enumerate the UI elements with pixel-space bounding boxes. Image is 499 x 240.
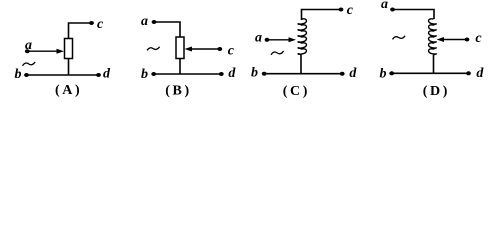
svg-text:b: b xyxy=(15,67,22,82)
svg-text:d: d xyxy=(228,66,236,81)
AC source tilde (A) xyxy=(23,62,36,66)
node a terminal dot (A) xyxy=(25,49,30,53)
wire a right and down to RB top xyxy=(154,22,180,37)
svg-text:d: d xyxy=(349,66,357,81)
svg-text:c: c xyxy=(97,17,104,32)
svg-text:b: b xyxy=(251,66,258,81)
svg-text:d: d xyxy=(103,67,111,82)
wire top of LC up and right to c xyxy=(302,10,341,21)
wiper arrow a to LC xyxy=(267,39,289,41)
wire bottom b to d (C) xyxy=(264,73,342,75)
wire LD bottom stub xyxy=(433,55,435,73)
node c terminal dot (C) xyxy=(339,8,344,12)
node c terminal dot (B) xyxy=(217,47,222,51)
node c terminal dot (D) xyxy=(465,38,470,42)
svg-text:c: c xyxy=(475,31,482,46)
svg-text:b: b xyxy=(380,67,387,82)
svg-text:c: c xyxy=(228,44,235,59)
node a terminal dot (B) xyxy=(152,20,157,24)
wire bottom b to d (D) xyxy=(392,72,469,74)
wiper arrow a to RA xyxy=(27,50,57,52)
AC source tilde (D) xyxy=(393,36,406,40)
svg-text:a: a xyxy=(141,14,148,29)
node b terminal dot (C) xyxy=(262,72,267,76)
svg-text:a: a xyxy=(381,0,388,12)
node b terminal dot (D) xyxy=(389,71,394,75)
node d terminal dot (C) xyxy=(340,72,345,76)
node d terminal dot (A) xyxy=(96,73,101,77)
resistor RA (vertical box) xyxy=(65,39,73,59)
AC source tilde (B) xyxy=(147,47,160,51)
svg-text:(C): (C) xyxy=(283,84,310,99)
wiper arrow c to RB xyxy=(191,48,220,50)
resistor RB (vertical box) xyxy=(176,37,184,59)
wire a right and down to LD top xyxy=(393,10,435,20)
svg-text:(D): (D) xyxy=(423,84,450,99)
wire top of RA up and right to c xyxy=(69,23,92,39)
node d terminal dot (B) xyxy=(219,72,224,76)
wire bottom b to d (B) xyxy=(154,73,222,75)
svg-text:b: b xyxy=(141,67,148,82)
wire bottom b to d (A) xyxy=(27,74,99,76)
wire LC bottom stub xyxy=(300,55,302,74)
svg-text:d: d xyxy=(476,66,484,81)
node c terminal dot (A) xyxy=(89,21,94,25)
wire RB bottom stub xyxy=(179,59,181,75)
node b terminal dot (B) xyxy=(151,72,156,76)
node a terminal dot (C) xyxy=(265,38,270,42)
node a terminal dot (D) xyxy=(390,8,395,12)
node b terminal dot (A) xyxy=(24,73,29,77)
AC source tilde (C) xyxy=(271,51,284,55)
svg-text:(A): (A) xyxy=(55,83,82,98)
svg-text:c: c xyxy=(347,3,354,18)
wiper arrow c to LD xyxy=(444,39,467,41)
svg-text:a: a xyxy=(255,31,262,46)
inductor LC (vertical coil) xyxy=(298,19,306,55)
wire RA bottom stub xyxy=(68,59,70,76)
inductor LD (vertical coil) xyxy=(429,19,437,55)
node d terminal dot (D) xyxy=(466,71,471,75)
svg-text:(B): (B) xyxy=(165,84,191,99)
